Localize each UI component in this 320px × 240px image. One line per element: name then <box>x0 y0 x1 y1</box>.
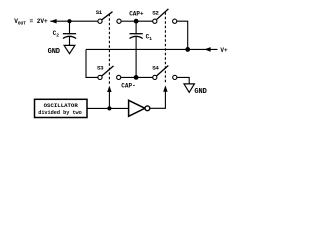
svg-text:GND: GND <box>194 88 206 96</box>
svg-text:GND: GND <box>48 48 60 56</box>
wire inverter output up <box>150 91 166 108</box>
node VOUT label <box>14 18 48 26</box>
C2 value label <box>53 30 60 38</box>
inverter U2 <box>129 100 150 116</box>
wire S3 to CAP- <box>121 76 153 78</box>
svg-text:S4: S4 <box>152 64 159 71</box>
svg-text:S2: S2 <box>152 10 159 17</box>
ground GND (under C2) <box>64 45 75 53</box>
svg-text:S1: S1 <box>96 9 103 16</box>
node V+ junction <box>185 47 190 52</box>
wire S2 right terminal down to V+ rail <box>177 21 188 49</box>
switch S2 <box>153 9 177 23</box>
control arrow to S1/S3 <box>108 91 110 108</box>
wire top rail VOUT to S1 <box>50 20 98 22</box>
svg-text:CAP-: CAP- <box>121 83 135 90</box>
node CAP+ <box>134 19 139 24</box>
switch S3 <box>98 66 121 80</box>
capacitor C1 <box>130 21 143 77</box>
wire oscillator to inverter <box>87 107 129 109</box>
capacitor C2 <box>63 21 76 45</box>
V+ terminal arrow <box>204 47 210 52</box>
svg-text:V+: V+ <box>220 47 228 54</box>
oscillator box U1 <box>35 99 88 117</box>
node CAP- <box>134 75 139 80</box>
wire CAP+ to S2 <box>136 20 153 22</box>
wire S1 to CAP+ <box>121 20 134 22</box>
svg-text:CAP+: CAP+ <box>129 11 144 18</box>
switch S1 <box>98 12 121 24</box>
control line dashed (S2/S4) <box>164 12 166 84</box>
wire S4 to ground <box>177 77 189 84</box>
control line dashed (S1/S3) <box>108 14 110 85</box>
control arrow to S2/S4 <box>163 85 167 91</box>
node control junction <box>107 106 111 110</box>
C1 value label <box>146 34 153 42</box>
VOUT terminal arrow <box>50 19 56 24</box>
node C2 junction <box>67 19 71 23</box>
svg-text:OSCILLATOR: OSCILLATOR <box>44 102 79 109</box>
wire corner V+ rail down to S3 <box>86 49 98 77</box>
V+ rail <box>86 48 218 50</box>
svg-text:divided by two: divided by two <box>38 110 82 116</box>
svg-text:S3: S3 <box>97 64 104 71</box>
switch S4 <box>153 66 177 80</box>
ground GND (right) <box>184 84 194 93</box>
